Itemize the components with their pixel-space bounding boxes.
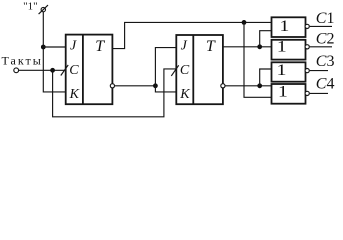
wire C1: [310, 25, 332, 27]
gate G3: [272, 62, 306, 81]
gate G1: [272, 17, 306, 37]
svg-text:T: T: [95, 38, 105, 55]
gate G3 value label 1: [277, 62, 287, 79]
svg-text:C1: C1: [316, 10, 335, 27]
wire up to FF2 J: [155, 48, 176, 86]
gate G4: [272, 84, 306, 104]
node top-wire branch dot: [242, 20, 247, 25]
label C1: [316, 10, 335, 27]
wire from "1" terminal down to K1: [43, 12, 65, 92]
wire up to G1 input 2: [260, 31, 272, 47]
wire FF1 Q-bar to FF2 JK: [115, 85, 156, 87]
svg-text:C2: C2: [316, 30, 335, 47]
svg-text:1: 1: [279, 18, 289, 35]
wire C2: [310, 46, 332, 48]
gate G2 output circle: [305, 45, 309, 49]
svg-text:K: K: [69, 87, 80, 102]
terminal Такты circle: [14, 68, 19, 73]
gate G3 output circle: [305, 69, 309, 73]
node J1 branch dot: [41, 45, 46, 50]
FF2 C dynamic input slash: [171, 65, 178, 76]
wire up to G3 input: [260, 69, 272, 86]
wire FF1 T output up and along top to gate G1: [112, 22, 271, 48]
wire C3: [310, 70, 328, 72]
svg-text:T: T: [206, 38, 216, 55]
gate G1 output circle: [305, 24, 309, 28]
label C2: [316, 30, 335, 47]
svg-text:J: J: [70, 39, 77, 54]
svg-text:"1": "1": [23, 1, 37, 13]
terminal "1" circle with slash: [39, 5, 48, 14]
wire Такты to C1 input: [19, 69, 66, 71]
node Q2 branch dot: [257, 44, 262, 49]
svg-text:C: C: [69, 63, 79, 78]
wire Такты down under FF1 to FF2 C input: [53, 69, 177, 117]
FF2 inverted output circle: [221, 84, 225, 88]
wire J1 input: [43, 46, 65, 48]
label C3: [316, 53, 335, 70]
svg-text:1: 1: [277, 38, 287, 55]
terminal "1" label: [23, 1, 37, 13]
wire down to FF2 K: [155, 86, 176, 92]
wire C4: [310, 92, 328, 94]
node Q1-bar T junction dot: [153, 83, 158, 88]
svg-text:Такты: Такты: [2, 53, 43, 67]
svg-text:1: 1: [277, 62, 287, 79]
wire from top branch down to G4 input 2: [244, 22, 272, 97]
wire FF2 Q-bar to G4 input 1: [225, 85, 272, 87]
svg-text:C4: C4: [316, 75, 335, 92]
svg-text:J: J: [181, 39, 188, 54]
node Такты branch dot: [50, 68, 55, 73]
svg-text:C3: C3: [316, 53, 335, 70]
svg-text:C: C: [180, 63, 190, 78]
node Q2-bar branch dot: [257, 83, 262, 88]
svg-text:1: 1: [278, 84, 288, 101]
svg-text:K: K: [179, 87, 190, 102]
flip-flop FF1 body: [66, 35, 113, 105]
FF1 C dynamic input slash: [61, 65, 68, 76]
flip-flop FF2 body: [176, 35, 223, 104]
label C4: [316, 75, 335, 92]
label Такты: [2, 53, 43, 67]
FF1 inverted output circle: [110, 84, 114, 88]
gate G1 value label 1: [279, 18, 289, 35]
gate G2: [272, 40, 306, 60]
wire FF2 T output to gate G2: [223, 46, 272, 48]
gate G4 value label 1: [278, 84, 288, 101]
gate G4 output circle: [305, 91, 309, 95]
gate G2 value label 1: [277, 38, 287, 55]
